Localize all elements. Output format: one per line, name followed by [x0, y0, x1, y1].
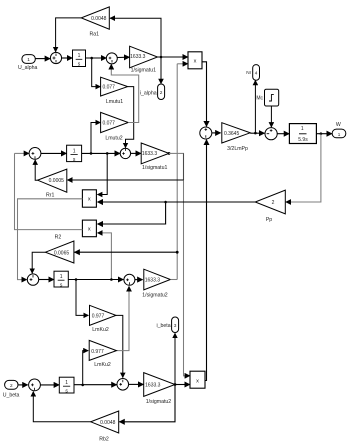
wire G1 tip to product X1: [158, 56, 188, 58]
wire Rb2 to S8 bottom: [33, 392, 90, 422]
svg-text:1633.3: 1633.3: [142, 151, 158, 157]
wire to Rr1: [68, 179, 184, 181]
svg-text:2: 2: [10, 383, 13, 388]
wire W feedback down to Pp: [286, 134, 321, 202]
svg-text:1/sigmatu1: 1/sigmatu1: [142, 165, 167, 171]
node branch psi1: [90, 57, 93, 60]
wire S6 to I3: [39, 279, 54, 281]
svg-text:Lmutu2: Lmutu2: [105, 135, 122, 141]
svg-text:4: 4: [255, 70, 258, 75]
wire gray to X1 second input: [177, 63, 188, 65]
wire S4 to I2: [41, 152, 67, 154]
wire S10 to TF block: [277, 133, 289, 135]
wire G2 tip right: [169, 152, 184, 154]
wire S7 to gain G6: [135, 279, 143, 281]
gain Lmutu1: [101, 77, 128, 105]
svg-text:0.077: 0.077: [102, 121, 115, 127]
product XB: [82, 220, 96, 237]
wire branch down to XB input1: [98, 202, 166, 224]
node branch to Lmutu2: [90, 152, 93, 155]
wire S2 to gain G1: [118, 56, 130, 58]
svg-text:Nr: Nr: [246, 70, 251, 75]
svg-text:Lmutu1: Lmutu1: [106, 99, 123, 105]
sum S1: [50, 52, 61, 63]
wire Lmutu1 to sum S3 top: [126, 87, 134, 148]
node Nr branch: [254, 132, 257, 135]
svg-text:1/sigmatu2: 1/sigmatu2: [142, 292, 167, 298]
node XB in2 branch: [110, 278, 113, 281]
svg-text:1: 1: [301, 126, 304, 132]
svg-text:U_alpha: U_alpha: [18, 65, 37, 71]
product X3: [190, 371, 205, 388]
gain Rr1 0.0005: [38, 169, 67, 199]
gain Rb2: [91, 411, 119, 442]
svg-text:x: x: [88, 197, 91, 203]
svg-text:i_beta: i_beta: [156, 323, 170, 329]
wire i_beta down to Rb2: [119, 385, 175, 422]
svg-text:2: 2: [272, 200, 275, 206]
gain G3 3/2LmPp: [222, 123, 250, 153]
svg-text:LmKu2: LmKu2: [92, 327, 109, 333]
sum S2: [106, 53, 117, 64]
node W feedback: [320, 132, 323, 135]
node G2 tip: [168, 152, 171, 155]
gain G7 LmKu2: [89, 340, 116, 367]
wire Lmutu2 to sum S2 bottom: [111, 64, 138, 122]
wire Rr1 to S4 bottom: [35, 160, 37, 180]
svg-text:0.0065: 0.0065: [54, 250, 70, 256]
svg-text:1633.3: 1633.3: [130, 54, 146, 60]
integrator I3 1/s: [54, 271, 68, 288]
sum S8: [29, 379, 41, 391]
wire branch up to gain G7: [83, 351, 88, 385]
svg-text:0.3645: 0.3645: [224, 131, 240, 137]
wire into S4 from left: [15, 152, 29, 154]
svg-text:2: 2: [160, 90, 163, 96]
svg-text:Ra1: Ra1: [90, 31, 100, 37]
svg-text:3/2LmPp: 3/2LmPp: [227, 146, 248, 152]
svg-text:1633.3: 1633.3: [145, 278, 161, 284]
wire U_beta to sum S8: [18, 384, 27, 386]
output port W (1): [332, 122, 346, 138]
output port Nr (4): [246, 65, 259, 81]
wire I4 to sum S9: [74, 384, 117, 386]
wire S8 to I4: [40, 384, 59, 386]
wire TF to output W: [316, 133, 332, 135]
wire Pp output to XA input2: [98, 201, 256, 203]
gain G5 LmKu2: [90, 305, 117, 333]
step block Mc: [256, 89, 278, 106]
wire X1 output down to sum S5: [202, 62, 207, 127]
gain Lmutu2: [101, 112, 129, 141]
svg-text:R2: R2: [55, 235, 62, 241]
node R2 line: [176, 251, 179, 254]
svg-text:1: 1: [27, 57, 30, 62]
input port U_beta (2): [3, 380, 20, 398]
svg-text:0.977: 0.977: [91, 349, 104, 355]
wire S3 to gain G2: [131, 152, 141, 154]
gain G2 1/sigmatu1: [141, 143, 169, 171]
integrator I4 1/s: [59, 377, 74, 394]
svg-text:LmKu2: LmKu2: [94, 362, 111, 368]
svg-text:0.0048: 0.0048: [100, 420, 116, 426]
svg-text:3: 3: [174, 323, 177, 329]
gain R2 0.0065: [45, 235, 74, 263]
long gray vertical i to X1 input2: [176, 64, 178, 280]
sum S10: [265, 128, 277, 140]
wire branch down to output i_alpha: [160, 57, 162, 84]
wire U_alpha to sum S1: [35, 58, 50, 60]
sum S3: [120, 148, 130, 158]
svg-text:1633.3: 1633.3: [145, 383, 161, 389]
svg-text:1: 1: [60, 274, 63, 280]
wire X3 output up to S5 bottom: [205, 140, 207, 381]
sum S5 torque: [200, 127, 212, 139]
svg-text:i_alpha: i_alpha: [140, 90, 157, 96]
svg-text:1: 1: [338, 132, 341, 137]
product X1: [188, 52, 202, 69]
svg-text:1/sigmatu1: 1/sigmatu1: [131, 68, 156, 74]
svg-text:Pp: Pp: [266, 217, 272, 223]
gain Ra1: [81, 7, 109, 37]
wire branch down to gain G5: [76, 280, 88, 316]
gain G8 1/sigmatu2: [144, 373, 175, 406]
svg-text:1/sigmatu2: 1/sigmatu2: [146, 399, 171, 405]
product XA: [82, 190, 96, 207]
svg-text:0.077: 0.077: [102, 85, 115, 91]
svg-text:Rr1: Rr1: [46, 193, 54, 199]
wire G8 tip to X3 input2: [175, 384, 190, 386]
input port U_alpha (1): [18, 55, 37, 71]
wire G5 down to sum S9 top: [116, 315, 123, 377]
output port i_alpha (2): [140, 84, 165, 100]
wire branch down to gain Lmutu1: [92, 58, 101, 87]
wire XB output to sum S4: [15, 153, 83, 229]
wire S1 to integrator I1: [62, 57, 73, 59]
wire branch up to Lmutu2: [91, 123, 100, 154]
svg-text:W: W: [336, 122, 341, 128]
svg-text:1: 1: [78, 53, 81, 59]
sum S9: [117, 379, 129, 391]
svg-text:1: 1: [65, 380, 68, 386]
wire I1 to sum S2: [86, 57, 107, 59]
wire i_beta branch up to port: [174, 333, 176, 384]
wire I2 to sum S3: [82, 152, 120, 154]
svg-text:1: 1: [73, 148, 76, 154]
node Pp branch: [164, 201, 167, 204]
node i_alpha branch: [160, 56, 163, 59]
svg-text:5.9s: 5.9s: [298, 137, 308, 143]
wire XA output to sum S6: [18, 199, 83, 280]
gain Pp: [255, 190, 285, 223]
svg-text:x: x: [196, 378, 199, 384]
transfer fcn 1/5.9s: [289, 124, 316, 144]
svg-text:x: x: [88, 226, 91, 232]
svg-text:x: x: [194, 59, 197, 65]
integrator I2 1/s: [67, 145, 82, 163]
gain G6 1/sigmatu2: [142, 269, 170, 298]
wire Ra1 to S1 top: [56, 18, 82, 52]
wire Mc to S10 top: [270, 106, 272, 127]
svg-text:0.0048: 0.0048: [91, 16, 107, 22]
wire S9 to gain G8: [129, 383, 144, 385]
long gray vertical to X3 input1: [184, 153, 190, 375]
wire feedback up to Ra1: [110, 18, 161, 57]
wire G7 up to S7 bottom: [117, 287, 130, 351]
node branch to G5: [75, 278, 78, 281]
node branch to product XA: [106, 152, 109, 155]
wire XB input2 from row4: [98, 233, 112, 280]
wire up to Nr port: [254, 80, 256, 133]
output port i_beta (3): [156, 317, 178, 333]
wire G3 to sum S10: [250, 132, 264, 134]
svg-text:0.977: 0.977: [92, 314, 105, 320]
wire R2 to sum S6 top: [32, 252, 45, 273]
sum S7: [124, 274, 135, 285]
svg-text:Rb2: Rb2: [99, 436, 109, 442]
wire G6 tip to node vertical: [170, 279, 177, 281]
svg-text:U_beta: U_beta: [3, 393, 20, 399]
wire S5 to gain G3: [212, 132, 221, 134]
integrator I1 1/s: [73, 50, 86, 68]
sum S6: [27, 274, 38, 285]
svg-text:Mc: Mc: [256, 96, 263, 102]
wire from node to R2: [75, 251, 178, 253]
gain G1 1/sigmatu1: [130, 46, 158, 73]
node branch to G7: [81, 384, 84, 387]
sum S4: [29, 148, 41, 160]
wire I3 to sum S7: [68, 279, 123, 281]
wire branch down to XA input 1: [98, 153, 108, 194]
node G8 tip: [174, 383, 177, 386]
wire node down from G2 tip level: [183, 153, 185, 180]
svg-text:0.0005: 0.0005: [49, 178, 65, 184]
